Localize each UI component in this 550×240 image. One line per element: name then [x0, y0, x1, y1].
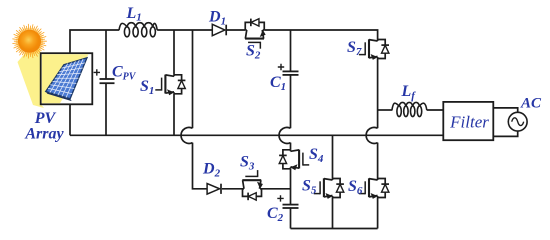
- wire: filter to AC bottom: [493, 131, 517, 136]
- wire: filter to AC top: [493, 108, 517, 112]
- inductor Lf: [392, 102, 427, 116]
- wire: top rail left segment: [70, 30, 119, 53]
- wire: Lf branch: [378, 109, 393, 111]
- wire: Cpv branch top: [105, 30, 107, 79]
- inductor L1: [119, 23, 157, 37]
- switch S7 (IGBT with antiparallel diode): [359, 39, 389, 60]
- wire: top rail D1 to S2: [226, 29, 245, 31]
- capacitor C1: [278, 64, 299, 75]
- diode D2: [207, 184, 221, 195]
- wire: C2 bottom: [290, 208, 292, 229]
- wire: D2 to S3: [222, 188, 243, 190]
- switch S5 (IGBT with antiparallel diode): [314, 178, 344, 199]
- svg-text:PV: PV: [34, 110, 57, 127]
- switch S1 (IGBT with antiparallel diode): [155, 75, 185, 96]
- beam inside box: [42, 54, 89, 103]
- crossover hop at D2 branch: [181, 127, 192, 143]
- diode D1: [212, 24, 226, 35]
- capacitor C2: [277, 195, 298, 208]
- capacitor Cpv: [94, 69, 115, 83]
- AC source: [508, 112, 527, 131]
- filter box: [443, 102, 493, 140]
- wire: bottom rail: [291, 228, 378, 230]
- crossover hop at S7/S6 branch: [366, 127, 377, 143]
- switch S4 (IGBT with antiparallel diode, mirrored: gate right, diode left): [279, 150, 309, 171]
- wire: S6 bottom: [377, 198, 379, 229]
- wire: S1 branch bottom: [173, 94, 175, 136]
- PV array box: [41, 53, 93, 104]
- wire: C1 branch top: [290, 30, 292, 71]
- wire: C1 bottom down to hop: [290, 75, 292, 128]
- wire: S1 branch top: [173, 30, 175, 75]
- wire: Cpv branch bottom: [105, 83, 107, 135]
- wire: PV bottom to mid rail: [69, 104, 71, 135]
- switch S3 (IGBT with antiparallel diode, horizontal, gate up / diode below): [242, 170, 263, 200]
- wire: S4 to node and C2: [290, 169, 292, 205]
- sun: [12, 24, 46, 59]
- wire: D2 branch vertical (top rail down, hops mid rail): [192, 30, 194, 128]
- crossover hop at C1/S4 branch: [279, 127, 290, 143]
- svg-text:Array: Array: [24, 126, 64, 143]
- switch S2 (IGBT with antiparallel diode, horizontal): [245, 19, 266, 49]
- wire: S3 to node: [262, 188, 291, 190]
- wire: top rail S2 to right corner, down to S7: [264, 30, 377, 40]
- switch S6 (IGBT with antiparallel diode): [359, 178, 389, 199]
- svg-text:Filter: Filter: [449, 113, 489, 132]
- wire: mid rail: [70, 134, 443, 136]
- wire: S7 to Lf junction down to hop: [377, 59, 379, 129]
- svg-text:AC: AC: [520, 96, 542, 112]
- solar panel: [46, 92, 72, 102]
- sun light beam: [18, 42, 45, 109]
- wire: top rail L1 to D1: [157, 29, 212, 31]
- wire: S5 branch: [332, 135, 334, 228]
